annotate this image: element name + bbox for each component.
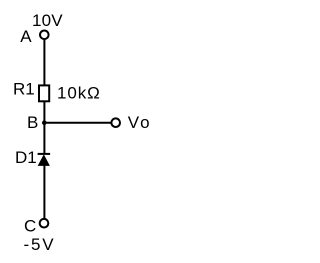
svg-text:D1: D1 (15, 148, 37, 167)
svg-text:C: C (24, 216, 36, 235)
svg-text:10V: 10V (32, 11, 63, 30)
svg-text:Vo: Vo (128, 113, 152, 132)
svg-text:R1: R1 (13, 80, 35, 99)
svg-text:B: B (27, 113, 38, 132)
svg-text:10kΩ: 10kΩ (57, 83, 101, 102)
svg-text:-5V: -5V (24, 235, 56, 254)
svg-text:A: A (20, 27, 32, 46)
